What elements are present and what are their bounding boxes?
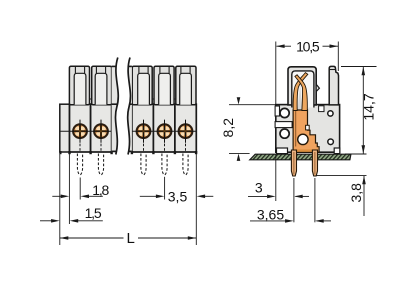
tower pole4: [154, 66, 174, 105]
contact prong right: [295, 75, 307, 111]
contact foot shade: [295, 149, 318, 151]
housing front hole upper: [280, 108, 289, 117]
svg-text:8,2: 8,2: [220, 118, 236, 138]
break gap whiteout: [115, 58, 130, 155]
tower cavities: [74, 73, 191, 105]
contact circle pole1: [72, 120, 88, 143]
break sliver right: [128, 66, 132, 151]
horizontal centerline right group: [132, 130, 196, 132]
svg-text:10,5: 10,5: [296, 38, 320, 54]
extension line A (base left edge): [59, 154, 61, 245]
centreline dashes below circles: [80, 144, 186, 152]
tower gap ticks: [89, 98, 176, 100]
base cell pole5: [175, 104, 196, 152]
housing front slot: [275, 122, 292, 128]
latch: [329, 66, 338, 105]
extension line pin4 centre: [164, 177, 166, 200]
side notch pointer: [316, 84, 319, 91]
dim L line: [60, 237, 124, 239]
tower pole5: [176, 66, 196, 105]
3,8 arrow up: [362, 176, 366, 185]
svg-text:3,65: 3,65: [257, 207, 284, 223]
contact circles: [72, 120, 193, 143]
dim 1,5 tails: [40, 220, 52, 222]
dim 3,65 tails: [250, 220, 286, 222]
contact circle pole5: [178, 120, 194, 143]
upper housing block: [288, 67, 316, 105]
lower housing block: [276, 105, 340, 153]
dim 14,7: [341, 66, 377, 68]
svg-text:L: L: [127, 230, 135, 247]
14,7 arrows: [362, 67, 366, 76]
extension line B (tower left edge): [68, 154, 70, 224]
contact body: [293, 110, 319, 152]
svg-text:14,7: 14,7: [361, 93, 377, 120]
svg-text:3,8: 3,8: [348, 183, 364, 203]
break wave line 2: [128, 58, 131, 155]
svg-text:3,5: 3,5: [168, 189, 188, 205]
solder pin B: [312, 150, 317, 176]
housing small slot right of cavity: [319, 106, 324, 112]
housing rear hole upper: [328, 111, 333, 116]
arrowheads front view: [51, 195, 205, 240]
contact circle pole2: [93, 120, 109, 143]
dim 3 tails: [248, 195, 267, 197]
extension line pin1 centre: [79, 178, 81, 200]
contact cavity: [292, 71, 314, 108]
3 arrows: [267, 195, 276, 199]
tower collar lines: [75, 66, 190, 73]
housing left extension below board: [275, 155, 277, 201]
contact body hole: [298, 134, 308, 144]
break wave line 1: [115, 58, 118, 155]
contact body notch: [306, 125, 310, 130]
horizontal centerline left group: [60, 130, 112, 132]
base cell pole4: [153, 104, 175, 152]
base cell pole1: [70, 104, 91, 152]
bottom foot recess left: [277, 148, 288, 154]
bottom foot recess right: [334, 148, 340, 154]
housing front notch: [275, 106, 279, 116]
arrowheads side view: [267, 44, 366, 222]
tower pole1: [69, 66, 89, 105]
housing rear hole lower: [328, 139, 334, 145]
svg-text:3: 3: [255, 180, 263, 196]
contact circle pole4: [157, 120, 173, 143]
base cell pole2: [91, 104, 112, 152]
contact circle pole3: [136, 120, 152, 143]
pin A extension: [293, 178, 295, 222]
pin B extension: [314, 178, 316, 222]
break sliver left: [112, 66, 118, 151]
extension line right end: [195, 154, 197, 245]
solder pin A: [291, 150, 296, 176]
dim 3,5 tails: [140, 195, 157, 197]
base flange left: [60, 104, 70, 152]
contact prong left: [293, 73, 308, 111]
tower pole2: [92, 66, 112, 105]
dim 10,5: [275, 42, 277, 105]
grey between contact prongs: [297, 85, 302, 111]
contact body seam: [295, 96, 297, 147]
3,65 arrows: [285, 219, 294, 223]
dim 8,2: [229, 105, 276, 154]
tower pole3: [132, 66, 152, 105]
svg-text:1,8: 1,8: [92, 182, 109, 198]
dashed solder pins front view: [77, 154, 188, 175]
base feet: [59, 151, 197, 154]
10,5 arrows: [276, 44, 285, 48]
svg-text:1,5: 1,5: [85, 205, 102, 221]
housing front hole lower: [280, 129, 289, 138]
dim 1,8 tails: [52, 195, 61, 197]
dim 3,8: [316, 175, 367, 177]
PCB board: [250, 154, 351, 160]
base cell pole3: [132, 104, 154, 152]
